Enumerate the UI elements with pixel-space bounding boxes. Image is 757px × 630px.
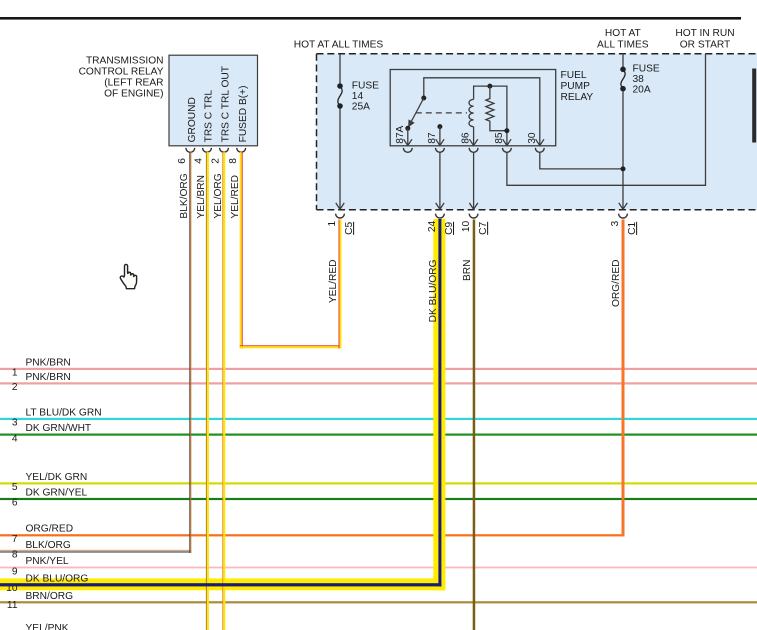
svg-text:30: 30 — [527, 132, 538, 144]
node: junction of pin 30 branch with fuse 38 output — [621, 166, 626, 171]
svg-text:4: 4 — [194, 158, 205, 164]
adjacent relay box edge (cut off at right margin) — [752, 69, 756, 143]
svg-text:ORG/RED: ORG/RED — [26, 524, 74, 535]
svg-text:HOT AT ALL TIMES: HOT AT ALL TIMES — [294, 40, 384, 51]
svg-text:DK BLU/ORG: DK BLU/ORG — [26, 573, 89, 584]
svg-text:38: 38 — [633, 74, 645, 85]
coil bottom lead to pin 86 — [473, 127, 475, 146]
horizontal wire 3 LT BLU/DK GRN — [0, 418, 757, 420]
svg-text:YEL/RED: YEL/RED — [328, 260, 339, 304]
vertical wire YEL/ORG from pin 2 — [222, 152, 225, 630]
node: HOT IN RUN OR START — [675, 28, 734, 51]
wire 11 label BRN/ORG — [26, 591, 74, 602]
wire label BRN (C7 drop) — [462, 260, 473, 282]
pin number 3 at C1 — [610, 220, 621, 226]
pin number 2 — [211, 158, 222, 164]
wire label BLK/ORG (vertical) — [179, 173, 190, 218]
wire: relay pin 86 down to connector C7 — [469, 152, 477, 209]
svg-text:86: 86 — [461, 132, 472, 144]
svg-text:1: 1 — [327, 220, 338, 226]
svg-text:DK GRN/WHT: DK GRN/WHT — [26, 423, 92, 434]
svg-text:14: 14 — [352, 91, 364, 102]
fuse F14 feed wire from HOT AT ALL TIMES to connector C5 — [336, 54, 344, 210]
svg-text:ALL TIMES: ALL TIMES — [597, 40, 649, 51]
horizontal wire 6 DK GRN/YEL — [0, 498, 757, 500]
svg-text:FUSE: FUSE — [633, 63, 660, 74]
svg-text:3: 3 — [610, 220, 621, 226]
label: transmission control relay (left rear of engine) — [79, 55, 164, 99]
relay coil L1 — [469, 99, 474, 126]
navy core of DK BLU/ORG wire (horizontal, wire 10) — [0, 583, 441, 586]
wire number 6 — [12, 498, 18, 509]
wire number 4 — [12, 433, 18, 444]
relay switch blade — [408, 98, 424, 127]
vertical wire ORG/RED from connector C1 — [622, 220, 625, 537]
svg-text:DK BLU/ORG: DK BLU/ORG — [428, 259, 439, 322]
svg-text:8: 8 — [12, 550, 18, 561]
label: fuel pump relay — [561, 70, 594, 103]
connector bump C7 — [469, 214, 478, 218]
svg-text:TRS C TRL: TRS C TRL — [204, 90, 215, 143]
svg-text:OR START: OR START — [680, 40, 731, 51]
relay pin exit arrows at box bottom — [404, 139, 544, 145]
node: HOT AT ALL TIMES (right feed) — [597, 28, 649, 51]
svg-text:HOT AT: HOT AT — [605, 28, 641, 39]
svg-text:YEL/ORG: YEL/ORG — [213, 173, 224, 218]
relay switch pivot node — [421, 96, 426, 101]
connector bump C9 — [436, 214, 445, 218]
relay switch common rail to pin 30 — [424, 78, 540, 146]
wire: relay pin 30 to fuse 38 node — [540, 152, 623, 169]
wire number 10 — [6, 583, 18, 594]
vertical wire DK BLU/ORG highlighted from connector C9 — [433, 219, 445, 590]
wire number 11 — [7, 600, 18, 611]
wire number 7 — [12, 534, 18, 545]
relay armature dashed link — [416, 112, 467, 114]
wire label YEL/RED (vertical) — [230, 175, 241, 219]
pin label: TRS C TRL — [204, 90, 215, 143]
wire 3 label LT BLU/DK GRN — [26, 407, 102, 418]
svg-text:DK GRN/YEL: DK GRN/YEL — [26, 487, 88, 498]
svg-text:HOT IN RUN: HOT IN RUN — [675, 28, 734, 39]
relay pin label 87A — [395, 125, 406, 143]
wire 8 label BLK/ORG — [26, 540, 71, 551]
underhood fuse/relay center dashed box (power distribution) — [317, 54, 757, 210]
svg-text:BLK/ORG: BLK/ORG — [26, 540, 71, 551]
horizontal wire 9 PNK/YEL — [0, 567, 757, 569]
pin number 4 — [194, 158, 205, 164]
svg-text:PNK/BRN: PNK/BRN — [26, 372, 71, 383]
relay contact 87A node and stub — [405, 126, 410, 146]
wire 1 label PNK/BRN — [26, 357, 71, 368]
svg-text:9: 9 — [12, 566, 18, 577]
label: FUSE 14 25A — [352, 80, 379, 112]
connector label C9 — [444, 221, 455, 234]
svg-text:C5: C5 — [344, 221, 355, 234]
wire: relay pin 85 to HOT IN RUN OR START feed — [507, 54, 706, 186]
svg-text:YEL/BRN: YEL/BRN — [196, 175, 207, 219]
wire 10 label DK BLU/ORG — [26, 573, 89, 584]
coil top lead to pin 85 branch — [474, 86, 507, 146]
wire 9 label PNK/YEL — [26, 556, 69, 567]
pin label: TRS C TRL OUT — [221, 66, 232, 142]
svg-text:RELAY: RELAY — [561, 92, 594, 103]
svg-text:6: 6 — [12, 498, 18, 509]
horizontal jumper wire YEL/RED joining pin 8 to connector C5 — [240, 345, 342, 348]
svg-text:CONTROL RELAY: CONTROL RELAY — [79, 66, 164, 77]
connector bump C1 — [619, 214, 628, 218]
pin label: GROUND — [187, 97, 198, 142]
svg-text:8: 8 — [228, 158, 239, 164]
connector label C1 — [627, 221, 638, 234]
svg-text:3: 3 — [12, 418, 18, 429]
wire number 2 — [12, 382, 18, 393]
svg-text:FUSE: FUSE — [352, 80, 379, 91]
svg-text:FUEL: FUEL — [561, 70, 587, 81]
svg-text:6: 6 — [177, 158, 188, 164]
svg-text:GROUND: GROUND — [187, 97, 198, 142]
horizontal wire 2 PNK/BRN — [0, 382, 757, 384]
svg-text:85: 85 — [494, 132, 505, 144]
vertical wire YEL/BRN from pin 4 — [206, 152, 209, 630]
transmission control relay connector box — [169, 55, 258, 146]
wire number 1 — [12, 368, 18, 379]
svg-text:2: 2 — [12, 382, 18, 393]
navy core of DK BLU/ORG wire (vertical) — [438, 219, 441, 586]
svg-text:PNK/BRN: PNK/BRN — [26, 357, 71, 368]
pin number 8 — [228, 158, 239, 164]
svg-text:5: 5 — [12, 482, 18, 493]
wire label YEL/RED (C5 drop) — [328, 260, 339, 304]
svg-text:FUSED B(+): FUSED B(+) — [238, 86, 249, 143]
svg-text:BLK/ORG: BLK/ORG — [179, 173, 190, 218]
fuse F14 symbol — [334, 83, 346, 109]
pin number 1 at C5 — [327, 220, 338, 226]
svg-text:(LEFT REAR: (LEFT REAR — [104, 78, 163, 89]
pin label: FUSED B(+) — [238, 86, 249, 143]
svg-text:YEL/RED: YEL/RED — [230, 175, 241, 219]
node: resistor bottom junction on pin 85 branch — [504, 128, 509, 133]
svg-text:PNK/YEL: PNK/YEL — [26, 556, 69, 567]
connector label C7 — [478, 221, 489, 234]
horizontal wire 4 DK GRN/WHT — [0, 434, 757, 436]
svg-text:87: 87 — [427, 132, 438, 144]
svg-text:YEL/DK GRN: YEL/DK GRN — [26, 472, 88, 483]
wire 4 label DK GRN/WHT — [26, 423, 92, 434]
svg-text:11: 11 — [7, 600, 18, 611]
wire number 8 — [12, 550, 18, 561]
wire: relay pin 87 down to connector C9 — [436, 152, 444, 209]
wire number 9 — [12, 566, 18, 577]
svg-text:LT BLU/DK GRN: LT BLU/DK GRN — [26, 407, 102, 418]
fuel pump relay box — [390, 70, 556, 146]
svg-text:7: 7 — [12, 534, 18, 545]
svg-text:25A: 25A — [352, 101, 370, 112]
vertical wire YEL/RED from pin 8 — [240, 152, 243, 348]
wire 7 label ORG/RED — [26, 524, 74, 535]
svg-text:TRANSMISSION: TRANSMISSION — [86, 55, 164, 66]
connector bump pin 4 — [203, 148, 212, 152]
horizontal wire 8 BLK/ORG — [0, 550, 191, 553]
relay pin label 30 — [527, 132, 538, 144]
wire label YEL/ORG (vertical) — [213, 173, 224, 218]
pin number 6 — [177, 158, 188, 164]
svg-text:24: 24 — [427, 220, 438, 232]
connector bump C5 — [336, 214, 345, 218]
wire 12 label YEL/PNK — [26, 623, 69, 630]
node: resistor top junction — [487, 84, 492, 89]
vertical wire BRN from connector C7 — [473, 220, 476, 630]
wire label ORG/RED (C1 drop) — [611, 260, 622, 308]
fuse F38 symbol — [617, 67, 629, 92]
horizontal wire 1 PNK/BRN — [0, 368, 757, 370]
svg-text:1: 1 — [12, 368, 18, 379]
svg-text:ORG/RED: ORG/RED — [611, 260, 622, 308]
relay pin label 87 — [427, 132, 438, 144]
svg-text:20A: 20A — [633, 85, 651, 96]
relay contact 87 node and stub — [437, 124, 442, 146]
svg-text:C7: C7 — [478, 221, 489, 234]
horizontal wire 5 YEL/DK GRN — [0, 482, 757, 484]
vertical wire YEL/RED from connector C5 — [339, 220, 342, 349]
top rule bar — [0, 17, 741, 20]
relay pin connector bumps — [403, 148, 544, 152]
connector bump pin 8 — [237, 148, 246, 152]
svg-text:10: 10 — [461, 220, 472, 232]
pin number 10 at C7 — [461, 220, 472, 232]
node: HOT AT ALL TIMES (left feed) — [294, 40, 384, 51]
wire number 5 — [12, 482, 18, 493]
relay pin label 85 — [494, 132, 505, 144]
wire number 3 — [12, 418, 18, 429]
svg-text:TRS C TRL OUT: TRS C TRL OUT — [221, 66, 232, 142]
pin number 24 at C9 — [427, 220, 438, 232]
wire label DK BLU/ORG (C9 drop) — [428, 259, 439, 322]
connector bump pin 6 — [186, 148, 195, 152]
connector label C5 — [344, 221, 355, 234]
svg-text:C9: C9 — [444, 221, 455, 234]
wire 5 label YEL/DK GRN — [26, 472, 88, 483]
horizontal wire 11 BRN/ORG — [0, 601, 757, 603]
svg-text:BRN: BRN — [462, 260, 473, 282]
horizontal wire 10 DK BLU/ORG highlighted (yellow band) — [0, 578, 445, 590]
svg-text:OF ENGINE): OF ENGINE) — [104, 89, 163, 100]
wire 6 label DK GRN/YEL — [26, 487, 88, 498]
label: FUSE 38 20A — [633, 63, 660, 95]
svg-text:4: 4 — [12, 433, 18, 444]
relay pin label 86 — [461, 132, 472, 144]
svg-text:BRN/ORG: BRN/ORG — [26, 591, 74, 602]
horizontal wire 7 ORG/RED — [0, 534, 625, 536]
connector bump pin 2 — [220, 148, 229, 152]
svg-text:YEL/PNK: YEL/PNK — [26, 623, 69, 630]
svg-text:PUMP: PUMP — [561, 81, 591, 92]
vertical wire BLK/ORG from pin 6 to wire 8 — [189, 152, 191, 553]
svg-text:C1: C1 — [627, 221, 638, 234]
wire 2 label PNK/BRN — [26, 372, 71, 383]
resistor R1 (coil suppression) — [486, 86, 507, 131]
wire label YEL/BRN (vertical) — [196, 175, 207, 219]
mouse cursor (hand pointer) — [120, 264, 136, 288]
fuse F38 feed wire from HOT AT ALL TIMES to connector C1 — [619, 54, 627, 210]
svg-text:2: 2 — [211, 158, 222, 164]
